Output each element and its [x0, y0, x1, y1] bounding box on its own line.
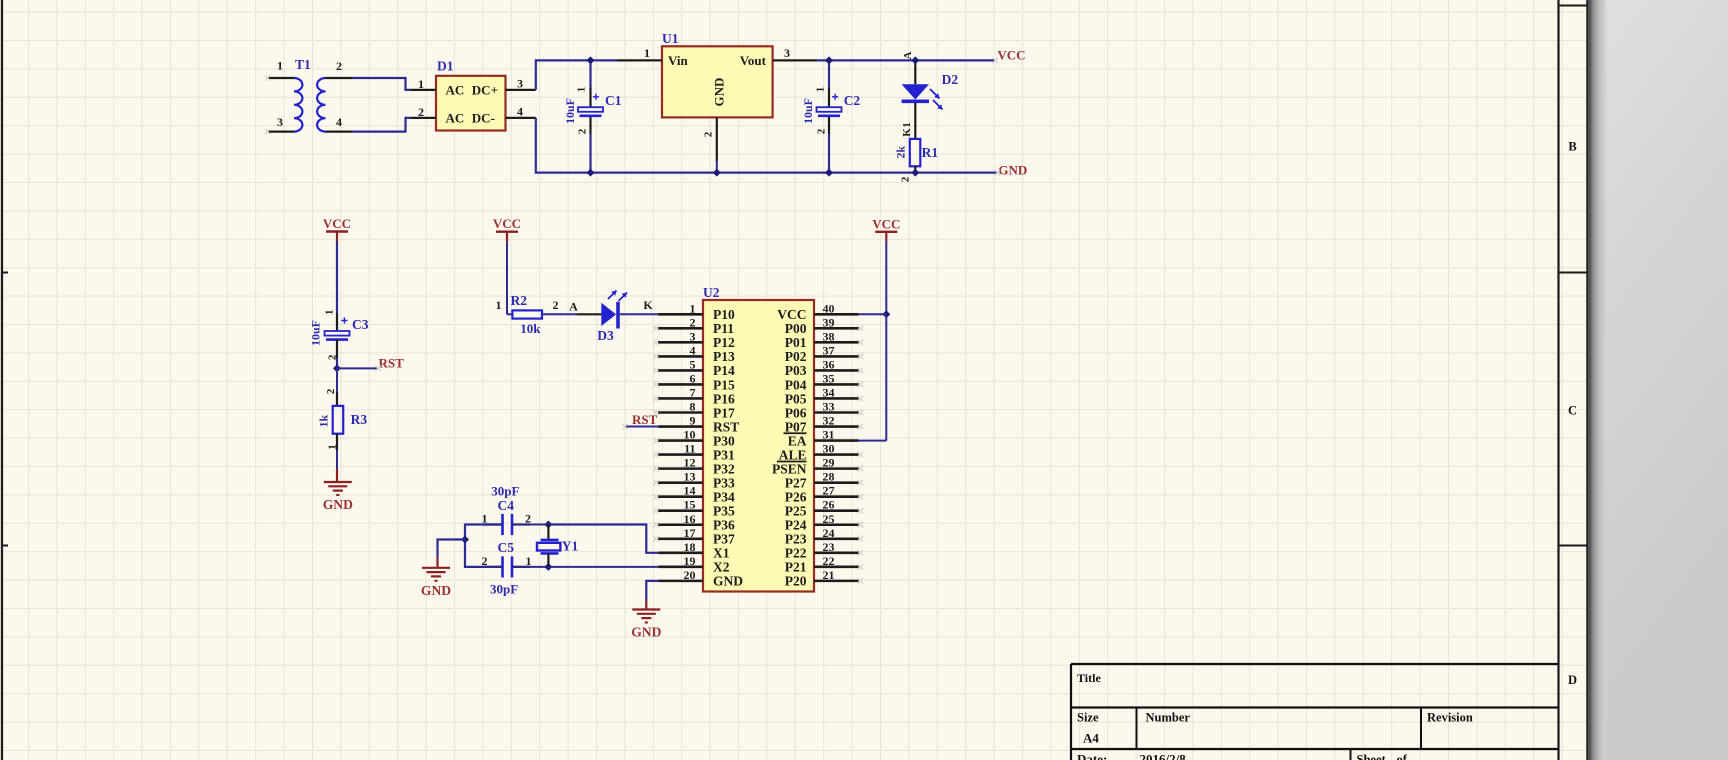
svg-text:Y1: Y1 [562, 539, 579, 554]
svg-text:P15: P15 [713, 377, 735, 392]
svg-text:1: 1 [815, 87, 827, 93]
svg-text:10uF: 10uF [801, 98, 815, 124]
svg-text:GND: GND [323, 497, 353, 512]
svg-text:21: 21 [823, 568, 835, 582]
svg-text:PSEN: PSEN [772, 461, 807, 476]
svg-text:31: 31 [823, 428, 835, 442]
svg-text:A: A [902, 51, 914, 59]
svg-text:13: 13 [684, 470, 696, 484]
svg-text:3: 3 [517, 77, 523, 91]
svg-text:VCC: VCC [997, 48, 1025, 63]
svg-text:25: 25 [823, 512, 835, 526]
svg-text:U2: U2 [703, 285, 720, 300]
svg-text:P26: P26 [785, 489, 807, 504]
svg-text:33: 33 [823, 400, 835, 414]
svg-text:1: 1 [324, 310, 336, 316]
svg-text:Vout: Vout [740, 53, 767, 68]
svg-text:D3: D3 [597, 328, 614, 343]
svg-text:D1: D1 [437, 59, 454, 74]
svg-text:P16: P16 [713, 391, 735, 406]
svg-text:P21: P21 [785, 560, 807, 575]
svg-text:P25: P25 [785, 504, 807, 519]
svg-text:2: 2 [816, 128, 828, 134]
svg-text:2: 2 [690, 315, 696, 329]
svg-text:P01: P01 [785, 335, 807, 350]
svg-text:38: 38 [823, 329, 835, 343]
svg-text:Number: Number [1146, 711, 1191, 725]
svg-text:2: 2 [525, 512, 531, 526]
svg-text:34: 34 [823, 385, 835, 399]
svg-text:D: D [1568, 673, 1577, 687]
svg-text:D2: D2 [942, 72, 959, 87]
svg-text:P14: P14 [713, 363, 735, 378]
svg-text:ALE: ALE [779, 447, 807, 462]
svg-text:RST: RST [713, 419, 739, 434]
svg-text:P24: P24 [785, 518, 807, 533]
svg-text:C4: C4 [498, 498, 515, 513]
svg-text:Vin: Vin [668, 53, 689, 68]
svg-text:GND: GND [631, 625, 661, 640]
svg-text:39: 39 [823, 315, 835, 329]
svg-text:A4: A4 [1083, 731, 1099, 746]
svg-text:3: 3 [784, 46, 790, 60]
svg-text:C: C [1568, 404, 1577, 418]
svg-text:A: A [569, 300, 578, 314]
svg-text:R2: R2 [511, 293, 528, 308]
svg-text:4: 4 [690, 343, 696, 357]
svg-text:RST: RST [379, 356, 405, 371]
svg-text:P06: P06 [785, 405, 807, 420]
svg-text:10k: 10k [520, 321, 541, 336]
svg-text:P20: P20 [785, 574, 807, 589]
svg-text:37: 37 [823, 343, 835, 357]
svg-text:VCC: VCC [872, 216, 900, 231]
svg-text:GND: GND [711, 78, 726, 107]
svg-text:B: B [1568, 140, 1576, 154]
svg-text:7: 7 [690, 385, 696, 399]
svg-text:T1: T1 [295, 57, 311, 72]
svg-text:P37: P37 [713, 532, 735, 547]
svg-text:P33: P33 [713, 475, 735, 490]
svg-text:K: K [643, 298, 653, 312]
svg-text:1: 1 [326, 444, 338, 450]
svg-text:1: 1 [901, 122, 913, 128]
svg-text:C1: C1 [605, 93, 622, 108]
svg-text:R1: R1 [922, 145, 939, 160]
svg-text:P07: P07 [785, 419, 807, 434]
svg-text:P30: P30 [713, 433, 735, 448]
svg-text:P34: P34 [713, 489, 735, 504]
svg-text:Date:: Date: [1077, 752, 1107, 760]
svg-text:2: 2 [325, 388, 337, 394]
svg-text:C3: C3 [352, 317, 369, 332]
svg-text:23: 23 [823, 540, 835, 554]
svg-text:35: 35 [823, 371, 835, 385]
svg-text:VCC: VCC [493, 216, 521, 231]
svg-text:19: 19 [684, 554, 696, 568]
svg-text:1: 1 [576, 87, 588, 93]
svg-text:32: 32 [823, 414, 835, 428]
svg-text:P36: P36 [713, 518, 735, 533]
svg-text:30pF: 30pF [490, 582, 518, 597]
svg-text:15: 15 [684, 498, 696, 512]
svg-text:30: 30 [823, 442, 835, 456]
svg-text:20: 20 [684, 568, 696, 582]
svg-text:P17: P17 [713, 405, 735, 420]
svg-text:C5: C5 [498, 540, 515, 555]
svg-text:29: 29 [823, 456, 835, 470]
svg-text:5: 5 [690, 357, 696, 371]
svg-text:P03: P03 [785, 363, 807, 378]
svg-text:P11: P11 [713, 321, 734, 336]
svg-text:P10: P10 [713, 307, 735, 322]
svg-text:DC+: DC+ [472, 83, 498, 98]
svg-text:P32: P32 [713, 461, 735, 476]
svg-text:P31: P31 [713, 447, 735, 462]
svg-text:VCC: VCC [323, 216, 351, 231]
svg-text:of: of [1397, 753, 1408, 760]
svg-text:P05: P05 [785, 391, 807, 406]
svg-text:P04: P04 [785, 377, 807, 392]
svg-text:P02: P02 [785, 349, 807, 364]
svg-text:2: 2 [553, 298, 559, 312]
svg-text:36: 36 [823, 357, 835, 371]
svg-text:VCC: VCC [777, 307, 806, 322]
svg-text:R3: R3 [351, 412, 368, 427]
svg-text:1: 1 [277, 59, 283, 73]
svg-text:2: 2 [703, 131, 715, 137]
svg-text:P22: P22 [785, 546, 807, 561]
svg-text:GND: GND [998, 163, 1027, 178]
svg-text:C2: C2 [844, 93, 861, 108]
svg-text:P23: P23 [785, 532, 807, 547]
svg-text:4: 4 [336, 115, 342, 129]
svg-text:26: 26 [823, 498, 835, 512]
svg-text:14: 14 [684, 484, 696, 498]
svg-text:GND: GND [421, 583, 451, 598]
svg-text:2: 2 [418, 105, 424, 119]
svg-text:X2: X2 [713, 560, 730, 575]
svg-text:27: 27 [823, 484, 835, 498]
svg-text:AC: AC [446, 83, 465, 98]
svg-text:Revision: Revision [1427, 711, 1473, 725]
svg-text:8: 8 [690, 400, 696, 414]
svg-text:X1: X1 [713, 546, 730, 561]
svg-text:3: 3 [690, 329, 696, 343]
svg-text:P00: P00 [785, 321, 807, 336]
svg-text:28: 28 [823, 470, 835, 484]
svg-text:K: K [901, 128, 913, 137]
svg-text:9: 9 [690, 414, 696, 428]
svg-text:GND: GND [713, 574, 743, 589]
svg-text:24: 24 [823, 526, 835, 540]
svg-text:2k: 2k [893, 146, 907, 159]
svg-text:1: 1 [496, 298, 502, 312]
svg-text:P35: P35 [713, 504, 735, 519]
svg-text:3: 3 [277, 115, 283, 129]
svg-text:40: 40 [823, 301, 835, 315]
svg-text:12: 12 [684, 456, 696, 470]
svg-text:18: 18 [684, 540, 696, 554]
svg-text:30pF: 30pF [491, 484, 519, 499]
svg-text:2: 2 [900, 176, 912, 182]
svg-text:P13: P13 [713, 349, 735, 364]
svg-text:16: 16 [684, 512, 696, 526]
svg-text:DC-: DC- [472, 111, 495, 126]
svg-text:10uF: 10uF [309, 320, 323, 346]
svg-text:EA: EA [788, 433, 807, 448]
svg-text:1: 1 [418, 77, 424, 91]
svg-text:22: 22 [823, 554, 835, 568]
svg-text:P27: P27 [785, 475, 807, 490]
svg-text:2: 2 [577, 128, 589, 134]
svg-text:10: 10 [684, 428, 696, 442]
svg-text:10uF: 10uF [563, 98, 577, 124]
svg-text:Size: Size [1077, 711, 1099, 725]
svg-text:AC: AC [446, 111, 465, 126]
svg-text:2: 2 [336, 59, 342, 73]
svg-text:U1: U1 [662, 31, 679, 46]
svg-text:17: 17 [684, 526, 696, 540]
svg-text:2016/2/8: 2016/2/8 [1140, 752, 1187, 760]
svg-text:1: 1 [644, 46, 650, 60]
svg-text:4: 4 [517, 105, 523, 119]
svg-text:6: 6 [690, 371, 696, 385]
svg-text:11: 11 [684, 442, 695, 456]
svg-text:1: 1 [690, 301, 696, 315]
svg-text:1k: 1k [317, 415, 331, 428]
svg-text:Title: Title [1077, 671, 1101, 685]
svg-text:P12: P12 [713, 335, 735, 350]
svg-text:Sheet: Sheet [1357, 753, 1387, 760]
